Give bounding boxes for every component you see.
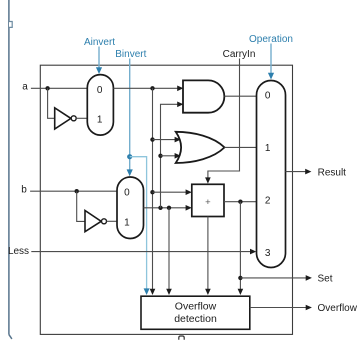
svg-text:0: 0 — [124, 187, 130, 198]
arrowhead Binvert branch into overflow detection — [144, 288, 150, 295]
junction dot b — [75, 189, 79, 193]
wire Result output — [286, 171, 307, 173]
wire Less input — [31, 251, 251, 253]
arrowhead a bus into overflow detection — [150, 289, 156, 295]
arrowhead into adder input a — [186, 189, 192, 195]
junction dot adder output — [238, 200, 242, 204]
wire a branch to OR top input — [153, 139, 176, 141]
svg-text:1: 1 — [265, 143, 271, 154]
svg-text:1: 1 — [97, 115, 103, 126]
wire b branch to OR bottom input — [161, 155, 176, 157]
arrowhead result into overflow detection — [238, 289, 244, 295]
arrowhead Result — [305, 169, 311, 175]
wire Overflow output — [250, 307, 307, 309]
wire adder output to mux2 — [224, 201, 257, 203]
svg-text:a: a — [22, 82, 28, 93]
arrowhead into AND bottom input — [177, 102, 183, 108]
arrowhead Less into mux3 — [250, 249, 256, 255]
adder — [192, 184, 224, 216]
svg-text:Ainvert: Ainvert — [84, 37, 115, 48]
svg-text:detection: detection — [174, 313, 217, 325]
svg-text:+: + — [205, 197, 211, 208]
mux A (2-to-1) — [87, 75, 113, 136]
arrowhead b bus into overflow detection — [166, 289, 172, 295]
arrowhead into OR top input — [175, 137, 181, 143]
svg-text:CarryIn: CarryIn — [223, 49, 256, 60]
junction dot Set — [238, 276, 242, 280]
junction dot b to OR — [158, 154, 162, 158]
arrowhead CarryIn into adder — [205, 177, 211, 183]
junction dot a to adder — [150, 190, 154, 194]
wire adder result down to Set — [239, 202, 241, 290]
wire inverter B output — [107, 220, 118, 222]
OR gate — [176, 132, 225, 163]
svg-text:Binvert: Binvert — [115, 49, 146, 60]
wire mux B output to adder — [144, 207, 187, 209]
arrowhead Overflow — [306, 305, 312, 311]
enclosure box — [40, 65, 292, 334]
AND gate — [183, 80, 224, 112]
Ainvert select wire — [96, 47, 102, 75]
arrowhead CarryOut into overflow detection — [205, 289, 211, 295]
svg-text:Less: Less — [8, 246, 29, 257]
wire b to inverter — [77, 191, 86, 221]
wire Set output — [240, 277, 306, 279]
inverter B (NOT gate) — [85, 211, 107, 232]
wire adder CarryOut down to overflow detection — [207, 217, 209, 291]
CarryIn wire — [208, 59, 240, 179]
Operation select wire — [268, 44, 274, 80]
partial shape at bottom edge — [179, 336, 184, 340]
junction dot a — [45, 86, 49, 90]
junction dot b-bus down — [167, 206, 171, 210]
wire a input — [31, 87, 87, 89]
page edge guide line — [9, 0, 12, 339]
inverter A (NOT gate) — [55, 108, 76, 129]
wire b vertical bus up to AND — [161, 104, 179, 208]
svg-text:Overflow: Overflow — [318, 303, 358, 314]
svg-text:Result: Result — [318, 167, 347, 178]
svg-text:0: 0 — [265, 91, 271, 102]
wire a branch to adder — [153, 191, 187, 193]
wire b input — [30, 190, 117, 192]
junction dot b-bus up — [158, 206, 162, 210]
junction dot a-bus top — [150, 86, 154, 90]
Binvert junction dot — [127, 154, 132, 159]
mux B (2-to-1) — [117, 177, 144, 239]
arrowhead into AND top input — [177, 86, 183, 92]
Binvert select wire — [127, 59, 133, 177]
wire AND output to mux0 — [224, 95, 257, 97]
wire b bus down to overflow detection — [168, 208, 170, 290]
wire mux A output to AND gate — [113, 87, 178, 89]
overflow detection box — [141, 296, 250, 329]
wire a vertical bus — [152, 88, 154, 290]
arrowhead Set — [306, 275, 312, 281]
svg-text:Set: Set — [318, 274, 333, 285]
svg-text:1: 1 — [124, 217, 130, 228]
arrowhead into OR bottom input — [175, 153, 181, 159]
svg-text:Overflow: Overflow — [175, 301, 217, 313]
wire inverter A output — [76, 117, 87, 119]
svg-text:0: 0 — [97, 85, 103, 96]
svg-text:b: b — [21, 185, 27, 196]
svg-text:3: 3 — [265, 248, 271, 259]
wire a to inverter — [48, 88, 56, 118]
mux Result (4-to-1) — [257, 81, 286, 268]
junction dot a to OR — [150, 137, 154, 141]
page edge guide tab — [9, 22, 12, 28]
svg-text:2: 2 — [265, 196, 271, 207]
Binvert branch wire to overflow detection — [130, 157, 147, 290]
svg-text:Operation: Operation — [249, 34, 293, 45]
arrowhead into adder input b — [186, 205, 192, 211]
wire OR output to mux1 — [225, 146, 257, 148]
